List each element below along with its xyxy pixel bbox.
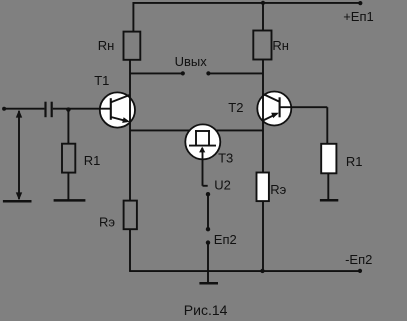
svg-text:Т1: Т1 (94, 73, 109, 88)
svg-text:Eп2: Eп2 (214, 232, 237, 247)
svg-text:Rэ: Rэ (99, 215, 115, 230)
svg-text:U2: U2 (214, 178, 231, 193)
svg-text:Rн: Rн (98, 38, 115, 53)
svg-text:+Eп1: +Eп1 (343, 9, 374, 24)
svg-text:Rэ: Rэ (270, 182, 286, 197)
svg-text:Uвых: Uвых (175, 54, 208, 69)
svg-text:R1: R1 (346, 154, 363, 169)
svg-text:R1: R1 (84, 153, 101, 168)
svg-text:Т3: Т3 (218, 151, 233, 166)
svg-text:Т2: Т2 (228, 100, 243, 115)
svg-text:Рис.14: Рис.14 (184, 302, 228, 318)
svg-text:-Eп2: -Eп2 (345, 252, 372, 267)
svg-text:Rн: Rн (272, 38, 289, 53)
